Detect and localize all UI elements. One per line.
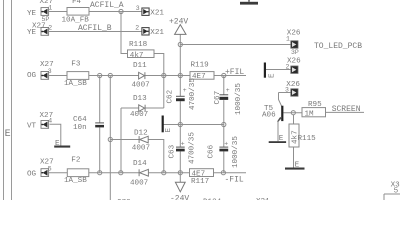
- svg-text:YE: YE: [27, 29, 37, 37]
- svg-text:VT: VT: [27, 122, 37, 130]
- svg-text:2: 2: [48, 25, 52, 32]
- svg-text:YE: YE: [27, 10, 37, 18]
- svg-text:C67: C67: [214, 91, 222, 105]
- svg-text:C62: C62: [167, 89, 175, 103]
- svg-text:10n: 10n: [73, 124, 87, 132]
- svg-text:3: 3: [136, 5, 140, 12]
- svg-text:C63: C63: [169, 144, 177, 158]
- svg-text:D124: D124: [203, 199, 222, 201]
- svg-text:4007: 4007: [130, 180, 148, 188]
- svg-text:1A_SB: 1A_SB: [64, 177, 87, 185]
- svg-text:X21: X21: [150, 10, 164, 18]
- svg-text:4007: 4007: [130, 111, 148, 119]
- svg-text:R117: R117: [191, 178, 209, 186]
- svg-text:D12: D12: [134, 129, 148, 137]
- svg-text:D13: D13: [133, 95, 147, 103]
- svg-text:D14: D14: [133, 160, 147, 168]
- svg-text:4007: 4007: [132, 81, 150, 89]
- svg-text:5P: 5P: [42, 16, 50, 23]
- svg-text:4: 4: [48, 117, 52, 124]
- svg-text:C64: C64: [73, 116, 87, 124]
- svg-text:X21: X21: [150, 29, 164, 37]
- svg-text:4007: 4007: [132, 144, 150, 152]
- svg-text:5: 5: [48, 165, 52, 172]
- svg-text:+: +: [181, 141, 185, 148]
- svg-text:C66: C66: [208, 144, 216, 158]
- svg-text:2: 2: [286, 63, 290, 70]
- svg-text:4k7: 4k7: [130, 52, 144, 60]
- svg-text:4E7: 4E7: [192, 170, 206, 178]
- svg-text:+FIL: +FIL: [225, 68, 244, 77]
- svg-text:1: 1: [286, 35, 290, 42]
- svg-text:E: E: [295, 161, 300, 169]
- svg-text:-FIL: -FIL: [225, 176, 244, 185]
- svg-text:+: +: [183, 87, 187, 94]
- svg-text:3P: 3P: [291, 49, 299, 56]
- svg-text:ACFIL_B: ACFIL_B: [78, 24, 112, 33]
- svg-text:3: 3: [285, 86, 289, 93]
- svg-text:R119: R119: [191, 61, 210, 69]
- svg-text:D11: D11: [133, 62, 147, 70]
- svg-text:E: E: [165, 128, 173, 133]
- svg-text:2: 2: [135, 25, 139, 32]
- svg-text:4k7: 4k7: [292, 130, 300, 144]
- svg-text:TO_LED_PCB: TO_LED_PCB: [314, 42, 362, 51]
- svg-text:OG: OG: [27, 72, 37, 80]
- svg-text:C70: C70: [117, 199, 131, 200]
- svg-text:E: E: [279, 135, 284, 143]
- svg-text:F3: F3: [71, 61, 81, 69]
- svg-text:F2: F2: [71, 156, 81, 164]
- svg-text:4700/35: 4700/35: [189, 78, 197, 110]
- svg-text:1M: 1M: [305, 110, 315, 118]
- svg-text:X21: X21: [256, 198, 270, 200]
- svg-text:E: E: [5, 129, 11, 140]
- svg-text:-24V: -24V: [170, 194, 189, 200]
- svg-text:OG: OG: [27, 171, 37, 179]
- svg-text:E: E: [55, 140, 60, 148]
- svg-text:1A_SB: 1A_SB: [64, 80, 87, 88]
- svg-text:R95: R95: [308, 101, 322, 109]
- svg-text:+: +: [224, 141, 228, 148]
- svg-text:R115: R115: [298, 135, 317, 143]
- svg-text:SCREEN: SCREEN: [332, 105, 361, 114]
- svg-text:F4: F4: [72, 0, 82, 6]
- svg-text:+: +: [226, 87, 230, 94]
- svg-text:+24V: +24V: [169, 18, 188, 27]
- svg-text:1000/35: 1000/35: [235, 83, 243, 115]
- svg-text:3: 3: [48, 68, 52, 75]
- svg-text:R118: R118: [129, 41, 148, 49]
- svg-text:1000/35: 1000/35: [232, 136, 240, 168]
- svg-text:ACFIL_A: ACFIL_A: [90, 1, 124, 10]
- svg-text:A06: A06: [262, 112, 276, 120]
- svg-text:1: 1: [48, 5, 52, 12]
- svg-text:E: E: [268, 73, 276, 78]
- svg-text:4700/35: 4700/35: [189, 132, 197, 164]
